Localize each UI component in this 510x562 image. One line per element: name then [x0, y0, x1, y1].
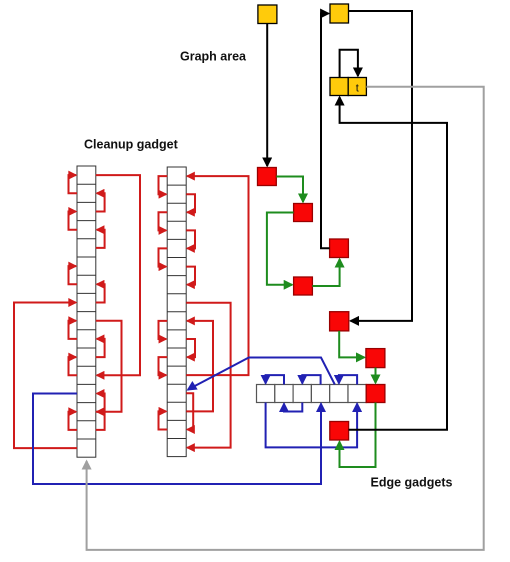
edge gadget row of 6 cells	[257, 385, 367, 403]
wire green V2 to V4	[267, 213, 294, 285]
svg-text:Edge gadgets: Edge gadgets	[371, 476, 453, 490]
wire red loop col2 cell12 to cell1	[186, 176, 248, 375]
red square V2	[294, 204, 313, 222]
wire blue staple row cell4-top to cell3-top	[302, 375, 320, 384]
wire red staple col2-left cell3 to cell4	[159, 212, 168, 230]
wire red loop col1 cell16 to cell8 (outer left)	[14, 303, 77, 449]
wire red staple col1-right cell14 to cell13	[96, 394, 105, 412]
wire red staple col2-left cell1 to cell2	[159, 176, 168, 194]
wire red staple col1-left cell2 to cell1	[69, 175, 78, 193]
wire red staple col2-right cell10 to cell11	[186, 339, 195, 357]
red square V8 at end of edge row	[366, 385, 385, 403]
wire red staple col1-right cell3 to cell2	[96, 193, 105, 211]
cleanup gadget ladder column 1 (16 cells)	[77, 166, 96, 457]
wire red staple col2-right cell4 to cell5	[186, 230, 195, 248]
wire green V6 to V8	[375, 368, 377, 383]
wire red staple col2-left cell5 to cell6	[159, 248, 168, 266]
yellow square s2 (graph area)	[330, 4, 349, 23]
svg-text:Graph area: Graph area	[180, 50, 247, 64]
wire red staple col2-left cell9 to cell10	[159, 321, 168, 339]
wire red staple col2-right cell2 to cell3	[186, 194, 195, 212]
wire black s2 right down to V5	[349, 11, 413, 321]
red square V5	[330, 312, 349, 331]
wire red staple col1-left cell15 to cell14	[69, 412, 78, 430]
wire red staple col1-left cell7 to cell6	[69, 266, 78, 284]
wire blue staple row cell3-bottom to cell2-bottom	[284, 403, 302, 412]
wire black s1 down to V1	[266, 24, 268, 167]
wire red loop col2 cell14 to cell9	[186, 321, 213, 412]
wire red stub col1-right cell15 up to loop	[96, 412, 105, 430]
yellow cell t-left	[330, 78, 348, 96]
wire red staple col2-left cell11 to cell12	[159, 357, 168, 375]
wire blue staple row cell6-top to cell5-top	[339, 375, 357, 384]
wire green V4 to V3	[312, 259, 339, 286]
red square V4	[294, 277, 313, 295]
red square V1	[258, 168, 277, 186]
wire black V3 up to s2	[321, 14, 330, 249]
wire black V7 right up to t	[340, 97, 447, 430]
wire red loop col2 cell8 to cell16	[186, 303, 230, 448]
yellow cell t (labelled)	[348, 78, 366, 96]
wire black t-left loop into t	[340, 50, 358, 78]
wire blue loop row cell1-bottom to cell6-bottom	[266, 403, 358, 448]
wire red staple col1-left cell12 to cell11	[69, 357, 78, 375]
wire green V8 to V7	[340, 403, 376, 468]
wire red staple col1-right cell11 to cell10	[96, 339, 105, 357]
wire blue path col1-cell13 to row cell4-bottom	[33, 394, 321, 485]
wire green V5 to V6	[339, 331, 364, 358]
svg-text:t: t	[356, 83, 359, 95]
svg-text:Cleanup gadget: Cleanup gadget	[84, 138, 179, 152]
wire red staple col2-right cell13 to cell15	[186, 393, 193, 429]
wire green V1 to V2	[276, 177, 303, 203]
red square V6	[366, 349, 385, 368]
wire red staple col1-left cell10 to cell9	[69, 321, 78, 339]
wire red loop col1 cell9 to cell14 (inner right)	[96, 321, 122, 412]
wire blue staple row cell2-top to cell1-top	[266, 375, 284, 384]
wire red staple col1-right cell8 to cell7	[96, 284, 105, 302]
wire red staple col1-left cell4 to cell3	[69, 212, 78, 230]
wire red loop col1 cell1 to cell12 (outer right)	[96, 175, 140, 375]
wire red staple col2-right cell6 to cell7	[186, 267, 195, 285]
yellow square s1 (graph area start)	[258, 5, 277, 24]
wire red staple col2-left cell15 to cell14	[159, 411, 168, 429]
red square V3	[330, 239, 349, 258]
wire red staple col1-right cell5 to cell4	[96, 230, 105, 248]
cleanup gadget ladder column 2 (16 cells)	[167, 167, 186, 457]
wire gray t to col1 bottom (outer loop)	[87, 87, 484, 550]
red square V7	[330, 422, 349, 441]
wire blue diagonal path row to col2-cell13	[188, 358, 335, 390]
